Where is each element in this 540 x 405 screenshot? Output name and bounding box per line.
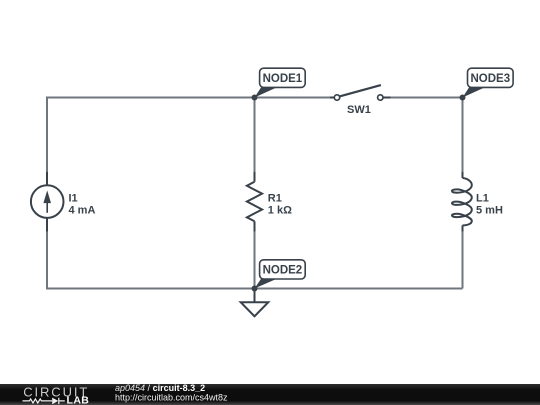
svg-text:NODE3: NODE3 (470, 73, 510, 85)
footer bar (0, 384, 540, 405)
svg-text:LAB: LAB (67, 395, 90, 405)
wire middle vertical lower (254, 232, 256, 289)
label L1 5 mH (476, 192, 503, 216)
node NODE1 (255, 68, 306, 97)
wire left vertical upper (46, 97, 48, 172)
svg-text:SW1: SW1 (347, 104, 371, 116)
wire right vertical lower (462, 232, 464, 289)
svg-text:R1: R1 (268, 192, 282, 204)
svg-text:4 mA: 4 mA (69, 205, 96, 217)
wire left vertical lower (46, 232, 48, 290)
logo resistor zigzag (23, 399, 53, 403)
svg-text:NODE2: NODE2 (263, 265, 303, 277)
junction node2 dot (252, 286, 258, 292)
inductor L1 (452, 172, 472, 232)
svg-text:5 mH: 5 mH (476, 205, 503, 217)
switch SW1 (330, 85, 391, 100)
ground (241, 289, 269, 317)
node NODE3 (463, 68, 514, 97)
wire bottom horizontal (47, 288, 463, 290)
svg-text:http://circuitlab.com/cs4wt8z: http://circuitlab.com/cs4wt8z (115, 393, 228, 403)
label I1 4 mA (69, 192, 96, 216)
svg-text:L1: L1 (476, 192, 489, 204)
label R1 1 kOhm (268, 192, 292, 216)
wire top left horizontal (47, 97, 334, 99)
svg-text:1 kΩ: 1 kΩ (268, 205, 292, 217)
junction node3 dot (460, 95, 466, 101)
wire middle vertical upper (254, 98, 256, 172)
logo diode (52, 398, 58, 405)
junction node1 dot (252, 95, 258, 101)
wire right vertical upper (462, 98, 464, 172)
resistor R1 (247, 172, 262, 232)
current source I1 (31, 172, 64, 232)
wire top right horizontal (384, 97, 463, 99)
svg-text:I1: I1 (69, 192, 78, 204)
svg-text:NODE1: NODE1 (263, 73, 303, 85)
node NODE2 (255, 260, 306, 289)
